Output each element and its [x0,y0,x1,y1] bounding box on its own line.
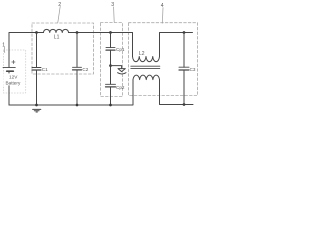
battery BT1 plates [3,66,15,68]
label 2 [58,2,61,8]
wire: top bus left (battery to L1) [9,33,44,68]
transformer L2 core [131,66,160,68]
label 3 [111,2,114,8]
svg-text:12V: 12V [9,75,18,80]
svg-text:Battery: Battery [5,81,21,86]
node: bottom bus / C1 [35,104,38,107]
box 2 (dashed, L1/C1/C2 filter) [32,23,94,74]
wire: transformer bottom-right lead and bottom output [160,80,194,105]
svg-text:Cp2: Cp2 [116,85,125,90]
label C1 [42,67,48,72]
ground [33,109,41,112]
node: top bus / C2 [76,31,79,34]
capacitor Cp1 [106,47,115,49]
label C3 [190,67,196,72]
svg-text:C3: C3 [190,67,196,72]
wire: transformer primary top lead [132,33,134,57]
inductor L1 [44,29,69,32]
leader for label 1 [3,47,6,52]
label 12V Battery [3,73,23,85]
capacitor C2 [73,66,82,68]
svg-text:2: 2 [58,2,61,8]
svg-text:4: 4 [161,3,164,9]
svg-text:L1: L1 [54,35,60,41]
wire: C2 branch [76,33,78,106]
leader for label 2 [58,6,60,22]
box 1 (dotted, battery section) [4,50,26,93]
wire: transformer secondary top lead to output [160,33,193,57]
box 4 (dashed, choke/output section) [129,23,198,96]
label C2 [82,67,88,72]
svg-text:C2: C2 [82,67,88,72]
spark gap electrode (triangle) [118,69,125,72]
node: C3 bottom [183,103,186,106]
node: top bus / Cp1 [109,31,112,34]
node: bottom bus / C2 [76,104,79,107]
wire: C3 branch [183,33,185,105]
label 4 [161,3,164,9]
wire: Cp1/Cp2 branch [110,33,112,106]
node: spark gap tap [109,64,112,67]
capacitor Cp2 [106,83,116,85]
wire: C1 branch [36,33,38,106]
node: top bus / C1 [35,31,38,34]
label L2 [139,51,145,57]
wire: spark gap branch [111,66,122,69]
wire: top bus (L1 to transformer) [69,32,133,34]
leader for label 4 [161,8,164,24]
label Cp1 [116,47,125,52]
transformer L2 top winding [133,57,160,62]
svg-text:L2: L2 [139,51,145,57]
node: bottom bus / Cp2 [109,104,112,107]
capacitor C3 [179,66,189,68]
capacitor C1 [32,67,41,69]
spark gap electrode (arc) [118,73,126,74]
label 1 [2,43,5,49]
label Cp2 [116,85,125,90]
wire: battery negative to bottom bus [8,71,10,105]
wire: transformer bottom-left lead to bottom bus [9,80,133,105]
leader for label 3 [113,7,116,22]
label L1 [54,35,60,41]
transformer L2 bottom winding [133,75,160,79]
node: C3 top [183,31,186,34]
box 3 (dashed, Y-cap / spark gap section) [101,23,123,97]
svg-text:Cp1: Cp1 [116,47,125,52]
svg-text:C1: C1 [42,67,48,72]
battery + sign [12,60,15,63]
